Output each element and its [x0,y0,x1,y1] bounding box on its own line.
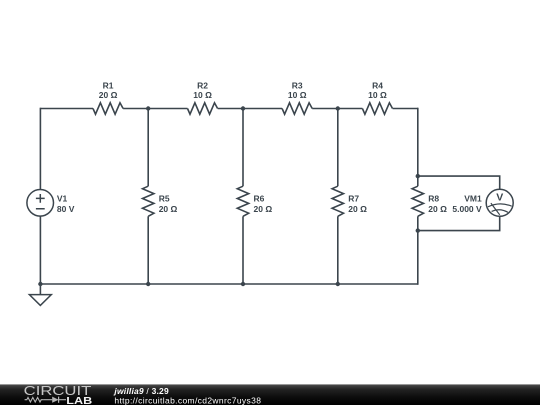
node: bottom rail junction at R7 [336,282,340,286]
svg-text:5.000 V: 5.000 V [452,204,482,214]
wire: R5 column lower lead [147,216,149,284]
node: voltmeter bottom junction [416,228,420,232]
wire: voltmeter bottom lead [418,216,500,231]
svg-text:VM1: VM1 [464,194,482,204]
svg-text:20 Ω: 20 Ω [254,204,273,214]
svg-text:R5: R5 [159,194,170,204]
svg-text:20 Ω: 20 Ω [159,204,178,214]
wire: top rail left segment [40,108,93,110]
resistor R4 [362,81,392,115]
svg-text:LAB: LAB [66,396,92,405]
node: top rail junction at R5 [146,106,150,110]
footer text: user and title [113,386,169,396]
CircuitLab logo: LAB text [66,396,92,405]
svg-text:R8: R8 [428,194,439,204]
resistor R1 [93,81,123,115]
wire: bottom rail [40,283,417,285]
wire: top rail between R1 and R2 [123,108,187,110]
svg-text:V: V [496,192,503,204]
svg-text:20 Ω: 20 Ω [348,204,367,214]
wire: voltmeter top lead [418,176,500,189]
wire: R8 column lower lead [417,216,419,284]
voltmeter VM1 [452,189,513,216]
svg-text:80 V: 80 V [57,204,75,214]
wire: top rail right segment to corner [393,108,418,110]
resistor R8 [412,186,447,216]
resistor R6 [237,186,272,216]
svg-text:http://circuitlab.com/cd2wnrc7: http://circuitlab.com/cd2wnrc7uys38 [114,395,261,405]
footer text: url [114,395,261,405]
node: ground junction [38,282,42,286]
ground [29,284,51,305]
node: bottom rail junction at R5 [146,282,150,286]
svg-text:20 Ω: 20 Ω [99,90,118,100]
svg-text:V1: V1 [57,194,68,204]
wire: top rail between R2 and R3 [218,108,282,110]
svg-text:10 Ω: 10 Ω [193,90,212,100]
svg-text:R6: R6 [254,194,265,204]
wire: top rail between R3 and R4 [312,108,362,110]
wire: R7 column upper lead [337,109,339,187]
wire: R7 column lower lead [337,216,339,284]
resistor R7 [332,186,367,216]
wire: R5 column upper lead [147,109,149,187]
resistor R3 [282,81,312,115]
wire: left vertical from V1 to bottom rail [39,216,41,285]
CircuitLab logo: diode symbol [44,397,66,403]
node: bottom rail junction at R6 [241,282,245,286]
svg-text:R7: R7 [348,194,359,204]
wire: left vertical from top rail to V1 [39,108,41,190]
CircuitLab logo: resistor squiggle [25,397,44,402]
wire: R6 column upper lead [242,109,244,187]
resistor R2 [188,81,218,115]
wire: R8 column upper lead [417,108,419,187]
svg-text:10 Ω: 10 Ω [288,90,307,100]
node: top rail junction at R6 [241,106,245,110]
wire: R6 column lower lead [242,216,244,284]
CircuitLab logo: CIRCUIT text [24,384,92,398]
footer bar [0,384,540,405]
node: top rail junction at R7 [336,106,340,110]
voltage source V1 [27,190,75,217]
svg-text:20 Ω: 20 Ω [428,204,447,214]
svg-text:10 Ω: 10 Ω [368,90,387,100]
node: voltmeter top junction [416,174,420,178]
resistor R5 [143,186,178,216]
